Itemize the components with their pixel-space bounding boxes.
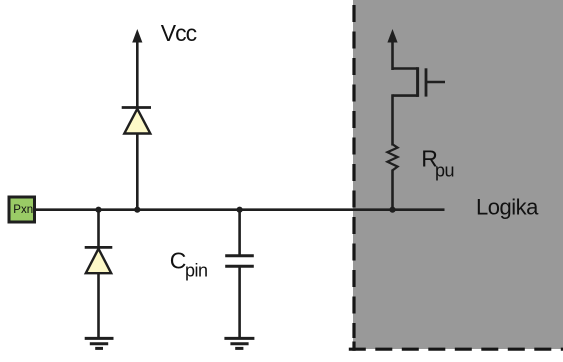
logic block dashed border (corner piece)	[352, 342, 355, 351]
svg-text:Logika: Logika	[476, 195, 539, 220]
node: junction pull-up/main wire	[389, 207, 395, 213]
transistor Q1 source lead	[393, 67, 418, 70]
transistor Q1 (pull-up pMOS)	[393, 67, 446, 97]
resistor Rpu (zigzag)	[387, 144, 397, 170]
wire: drain to resistor	[391, 94, 394, 145]
transistor Q1 drain lead	[393, 94, 418, 97]
capacitor Cpin bottom plate	[225, 265, 254, 268]
transistor Q1 channel bar	[416, 67, 419, 97]
supply arrow head in logic block	[387, 29, 397, 43]
wire: capacitor vertical branch (bottom)	[238, 267, 241, 338]
svg-text:C: C	[170, 248, 187, 274]
wire: clamp diode vertical branch	[97, 210, 100, 338]
svg-text:pin: pin	[185, 261, 208, 281]
Vcc arrow head	[132, 29, 142, 43]
transistor Q1 gate bar	[425, 68, 428, 96]
svg-text:pu: pu	[435, 161, 454, 181]
wire: resistor to output node	[391, 170, 394, 210]
wire: pull-up vertical branch to supply	[391, 40, 394, 70]
logic block shaded region	[353, 0, 563, 349]
diode D1 (to Vcc)	[124, 109, 150, 134]
node: junction main/clamp diode	[95, 207, 101, 213]
wire: main horizontal net from Pxn to logic	[34, 208, 445, 211]
diode D1 cathode bar	[122, 106, 151, 109]
node: junction main/Vcc branch	[134, 207, 140, 213]
ground symbol under Cpin	[224, 338, 254, 348]
transistor Q1 gate lead	[426, 81, 445, 84]
logic block dashed border (bottom edge)	[349, 348, 563, 351]
diode D2 cathode bar	[85, 246, 113, 249]
pin pad Pxn	[9, 197, 35, 222]
wire: Vcc vertical branch	[136, 40, 139, 210]
capacitor Cpin top plate	[225, 254, 254, 257]
diode D2 (to GND)	[86, 249, 111, 274]
wire: capacitor vertical branch (top)	[238, 210, 241, 255]
ground symbol under D2	[85, 338, 114, 348]
node: junction main/capacitor	[237, 207, 243, 213]
svg-text:Vcc: Vcc	[161, 20, 197, 46]
svg-text:Pxn: Pxn	[13, 204, 33, 216]
logic block dashed border (left edge)	[352, 0, 355, 338]
